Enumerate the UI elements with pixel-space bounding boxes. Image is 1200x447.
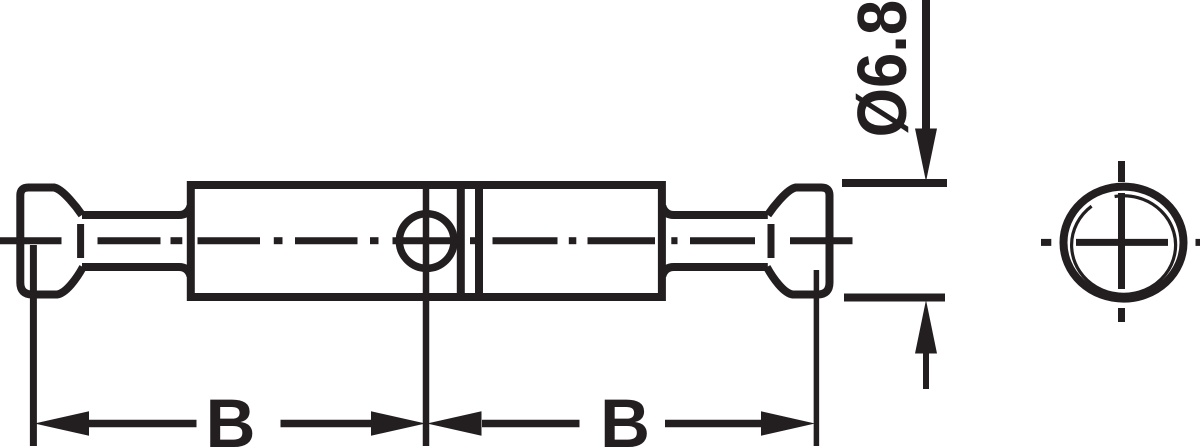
hole vertical centerline + B extension line middle	[423, 189, 430, 446]
end view horizontal centerline	[1041, 239, 1200, 246]
centerline tick right head	[768, 224, 775, 258]
left head outline	[20, 188, 83, 295]
arrow dia bottom (up)	[915, 300, 937, 354]
left neck bottom line	[82, 267, 191, 276]
cross hole circle in body	[399, 214, 454, 269]
right neck bottom line	[662, 267, 768, 276]
centerline tick left head	[77, 224, 84, 258]
dia 6.8 dimension tail below	[923, 353, 929, 389]
B extension line left	[30, 245, 37, 446]
svg-text:Ø6.8: Ø6.8	[844, 0, 921, 137]
right head outline	[767, 188, 830, 295]
arrow B right inner	[427, 411, 482, 435]
right neck top line	[662, 206, 768, 215]
svg-text:B: B	[600, 385, 650, 447]
B dimension line segments	[89, 420, 761, 428]
arrow B left outer	[35, 411, 90, 435]
centerline main view	[0, 237, 853, 244]
groove line 1	[457, 185, 465, 297]
dia 6.8 extension line top	[842, 179, 947, 187]
arrow dia top (down)	[915, 129, 937, 182]
end view vertical centerline	[1118, 161, 1125, 322]
svg-text:B: B	[206, 385, 256, 447]
body rectangle of bolt	[191, 185, 662, 297]
end view inner circle (thread)	[1072, 196, 1176, 295]
end view outer circle	[1064, 187, 1184, 299]
arrow B left inner	[371, 411, 426, 435]
B extension line right	[814, 270, 820, 446]
dia 6.8 dimension line above	[922, 0, 930, 129]
groove line 2	[475, 185, 483, 297]
left neck top line	[82, 206, 191, 215]
arrow B right outer	[761, 411, 815, 435]
dia 6.8 extension line bottom	[844, 294, 945, 302]
